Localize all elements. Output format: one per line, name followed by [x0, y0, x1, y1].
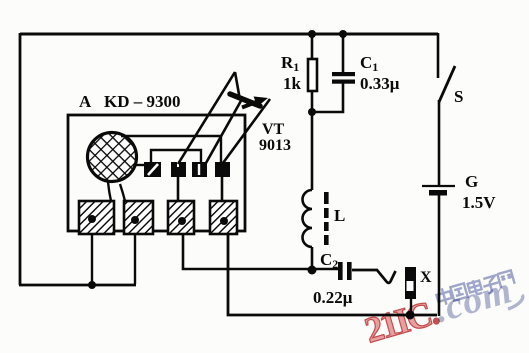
- bond square sq4: [215, 162, 230, 177]
- pad P2: [124, 201, 153, 234]
- bond square sq3: [192, 162, 207, 177]
- svg-text:VT: VT: [262, 121, 285, 138]
- transistor Q1 emitter arrow: [242, 101, 259, 108]
- svg-text:A: A: [79, 92, 92, 111]
- svg-text:X: X: [420, 269, 432, 286]
- wire sq2 to pad3: [177, 177, 180, 202]
- watermark chinese characters: [435, 270, 515, 306]
- wire die to sq1: [136, 164, 146, 166]
- battery G plates: [422, 185, 455, 187]
- wire battery to bottom rail: [438, 195, 441, 316]
- node junction pad1/bottom-left rail: [88, 281, 96, 289]
- wire switch-battery column: [437, 33, 440, 78]
- wire pad3 lead to C2 rail: [183, 221, 340, 269]
- wire top rail: [20, 33, 438, 36]
- earphone jack X: [405, 267, 416, 299]
- svg-text:R1: R1: [281, 53, 299, 74]
- switch S blade: [439, 66, 455, 102]
- node C1 top: [339, 30, 347, 38]
- watermark 21IC: [360, 292, 442, 351]
- char zi: [481, 275, 501, 294]
- transistor Q1 base bar: [230, 94, 260, 106]
- node L / C2 rail: [308, 266, 317, 275]
- pad P1: [79, 201, 114, 234]
- pad P4: [210, 201, 237, 234]
- wire left rail: [19, 33, 22, 285]
- char zhong: [435, 286, 453, 306]
- inductor L: [303, 190, 313, 247]
- svg-text:0.22μ: 0.22μ: [313, 288, 353, 307]
- module box A KD-9300: [68, 115, 245, 231]
- IC die circle: [88, 133, 137, 182]
- svg-text:C1: C1: [360, 53, 378, 74]
- wire pad1 lead: [91, 220, 93, 285]
- capacitor C2: [338, 262, 343, 280]
- wire C2 to plug check: [352, 270, 396, 283]
- wire die top to sq4: [121, 136, 221, 162]
- wire bottom-left rail: [19, 284, 136, 287]
- wire pad2 lead: [134, 220, 136, 284]
- svg-text:1k: 1k: [283, 74, 302, 93]
- char dian: [467, 279, 483, 297]
- wire jumper sq1 to sq3: [151, 150, 201, 162]
- wire emitter diagonal to sq4: [223, 99, 270, 163]
- wire sq4 to pad4: [221, 177, 224, 202]
- wire switch to battery: [438, 100, 441, 186]
- svg-text:L: L: [334, 206, 345, 225]
- svg-text:C2: C2: [320, 250, 338, 271]
- svg-text:S: S: [454, 87, 463, 106]
- wire die bottom to pad2: [120, 184, 125, 201]
- node X / bottom rail: [406, 311, 415, 320]
- wire X to bottom rail: [410, 299, 412, 313]
- svg-text:G: G: [465, 172, 478, 191]
- wire collector diagonal from sq2: [178, 72, 235, 164]
- capacitor C1: [342, 33, 345, 72]
- char wang: [497, 270, 514, 287]
- svg-text:1.5V: 1.5V: [462, 193, 496, 212]
- wire die bottom to pad1: [108, 182, 111, 201]
- pad P3: [168, 201, 194, 234]
- bond square sq1: [144, 162, 161, 177]
- wire L bottom: [311, 247, 314, 270]
- wire collector drop to base bar: [235, 72, 240, 100]
- svg-text:0.33μ: 0.33μ: [360, 74, 400, 93]
- char guo: [450, 283, 467, 300]
- watermark .com tail swash: [508, 295, 523, 309]
- wire pad4 lead to bottom rail: [228, 221, 437, 315]
- node R1 top: [308, 30, 316, 38]
- svg-text:KD – 9300: KD – 9300: [104, 92, 181, 111]
- watermark .com: [430, 269, 517, 331]
- svg-text:21IC.: 21IC.: [360, 292, 442, 351]
- svg-text:9013: 9013: [259, 137, 291, 154]
- resistor R1: [311, 33, 314, 59]
- node R1 bottom: [308, 108, 316, 116]
- bond square sq2: [171, 162, 186, 177]
- wire base diagonal from sq3: [206, 99, 242, 163]
